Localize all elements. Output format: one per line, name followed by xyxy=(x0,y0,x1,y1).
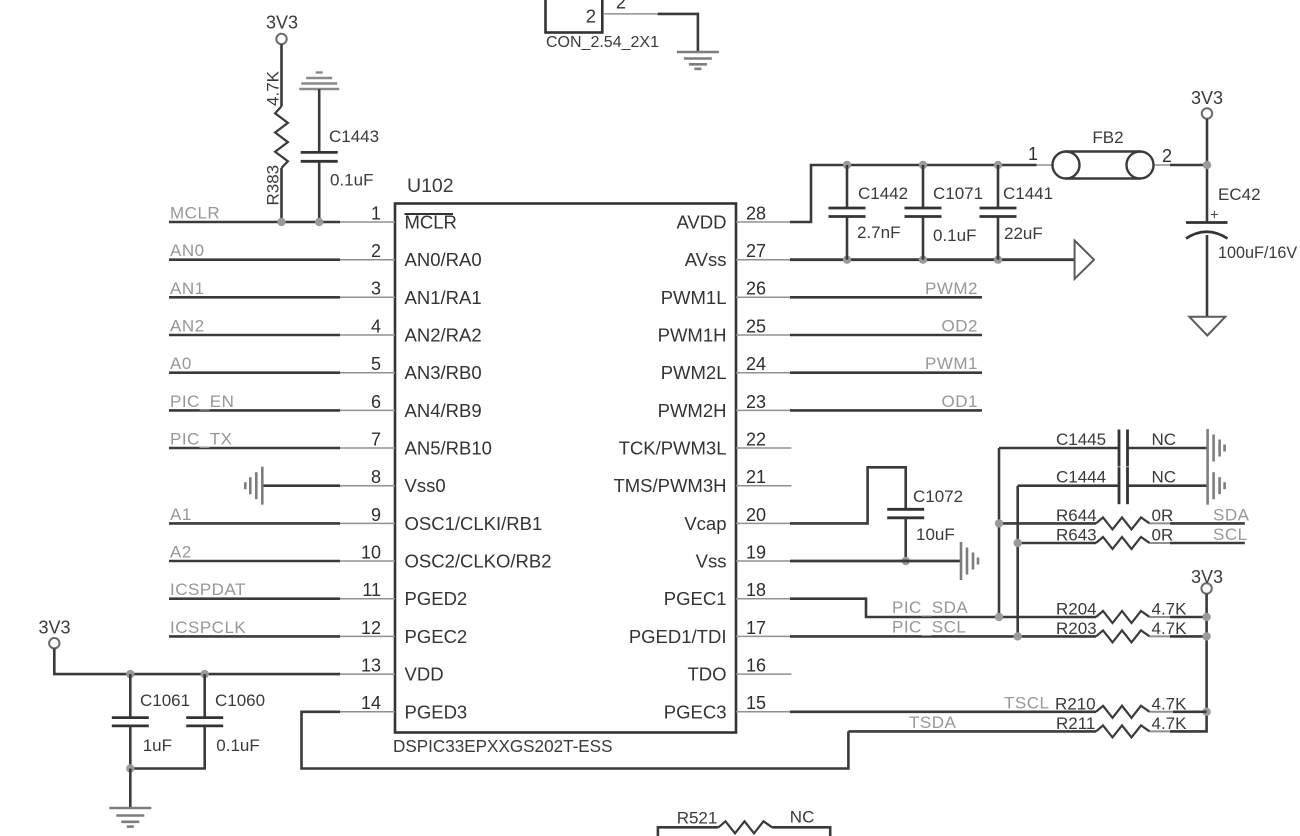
svg-text:C1444: C1444 xyxy=(1056,468,1106,487)
U102 pin stubs right pins 28-15 xyxy=(736,222,791,712)
svg-text:OD2: OD2 xyxy=(942,317,978,336)
wire FB2 pin2 to 3V3 xyxy=(1170,164,1207,167)
wire net TSDA row xyxy=(848,730,1096,733)
wire C1072 to Vss net xyxy=(904,518,907,561)
ground at Vss (rotated right) xyxy=(961,542,978,580)
U102 pin numbers right 28-15 xyxy=(746,203,766,713)
svg-text:PIC_EN: PIC_EN xyxy=(170,392,234,411)
wire connector pin2 to ground xyxy=(658,14,698,52)
wire net A2 pin10 xyxy=(169,560,340,563)
svg-text:PWM2L: PWM2L xyxy=(661,362,727,383)
ground top-middle (earth) xyxy=(677,52,719,69)
svg-text:C1445: C1445 xyxy=(1056,430,1106,449)
svg-text:12: 12 xyxy=(361,618,381,638)
svg-text:R643: R643 xyxy=(1056,526,1097,545)
svg-text:R210: R210 xyxy=(1055,694,1096,713)
wire PGEC3 pin15 net TSCL xyxy=(790,710,1096,713)
junction R643/vertical xyxy=(1014,539,1022,547)
svg-text:21: 21 xyxy=(746,467,766,487)
svg-text:FB2: FB2 xyxy=(1092,128,1123,147)
wire net PWM2 pin26 xyxy=(790,296,982,299)
svg-text:PGEC3: PGEC3 xyxy=(664,701,727,722)
svg-text:18: 18 xyxy=(746,580,766,600)
left net wires pins 1-7, 9-12 xyxy=(169,222,340,636)
svg-text:19: 19 xyxy=(746,542,766,562)
svg-text:TCK/PWM3L: TCK/PWM3L xyxy=(619,438,727,459)
wire net OD2 pin25 xyxy=(790,334,982,337)
junction R383/MCLR xyxy=(277,218,285,226)
svg-text:ICSPCLK: ICSPCLK xyxy=(170,618,246,637)
svg-text:0R: 0R xyxy=(1152,526,1174,545)
svg-text:1: 1 xyxy=(371,203,381,223)
svg-text:1uF: 1uF xyxy=(143,736,172,755)
junction R204/3V3 xyxy=(1202,613,1210,621)
junction C1061/VDD xyxy=(126,670,134,678)
wire net ICSPDAT pin11 xyxy=(169,597,340,600)
junction C1072/Vss xyxy=(902,557,910,565)
svg-text:R521: R521 xyxy=(677,809,718,828)
svg-text:5: 5 xyxy=(371,354,381,374)
svg-text:20: 20 xyxy=(746,505,766,525)
IC U102 DSPIC33EPXXGS202T-ESS xyxy=(395,204,736,733)
wire VDD to C1060 xyxy=(203,674,206,718)
junction C1060/VDD xyxy=(201,670,209,678)
svg-text:PWM1: PWM1 xyxy=(925,354,978,373)
svg-text:EC42: EC42 xyxy=(1218,185,1261,204)
junctions AVss rail xyxy=(843,256,851,264)
svg-text:NC: NC xyxy=(790,808,815,827)
svg-text:PWM2H: PWM2H xyxy=(658,400,727,421)
svg-text:C1060: C1060 xyxy=(215,691,265,710)
wire 3V3 down to EC42 xyxy=(1206,119,1209,222)
svg-text:0.1uF: 0.1uF xyxy=(216,736,259,755)
svg-text:AN0/RA0: AN0/RA0 xyxy=(405,249,482,270)
wire R383 to MCLR net xyxy=(280,168,283,222)
svg-text:NC: NC xyxy=(1152,430,1177,449)
wire net A0 pin5 xyxy=(169,371,340,374)
wire net ICSPCLK pin12 xyxy=(169,635,340,638)
svg-text:PIC_TX: PIC_TX xyxy=(170,430,233,449)
svg-text:24: 24 xyxy=(746,354,766,374)
svg-text:3V3: 3V3 xyxy=(1191,88,1223,108)
svg-text:PWM1L: PWM1L xyxy=(661,287,727,308)
connector pin 2 stub xyxy=(603,13,658,15)
svg-text:A0: A0 xyxy=(170,354,192,373)
FB2 body xyxy=(1053,152,1154,179)
svg-text:22: 22 xyxy=(746,429,766,449)
wire net A1 pin9 xyxy=(169,522,340,525)
svg-text:Vss: Vss xyxy=(696,551,727,572)
junction R210/3V3 xyxy=(1202,708,1210,716)
wire PGED1 pin17 PIC_SCL row xyxy=(790,635,1096,638)
svg-text:4.7K: 4.7K xyxy=(264,70,283,106)
svg-text:2: 2 xyxy=(1162,146,1172,166)
ground triangle below EC42 xyxy=(1189,317,1225,336)
svg-text:2: 2 xyxy=(371,241,381,261)
svg-text:PGEC1: PGEC1 xyxy=(664,588,727,609)
svg-text:PIC_SCL: PIC_SCL xyxy=(892,618,966,637)
svg-text:C1443: C1443 xyxy=(329,127,379,146)
arrow on AVss net xyxy=(1075,241,1094,279)
ground at C1444 (rotated right) xyxy=(1208,467,1225,505)
svg-text:1: 1 xyxy=(1028,144,1038,164)
junction FB2/3V3 xyxy=(1203,161,1211,169)
svg-text:10uF: 10uF xyxy=(916,525,955,544)
svg-text:17: 17 xyxy=(746,618,766,638)
svg-text:15: 15 xyxy=(746,693,766,713)
svg-text:Vcap: Vcap xyxy=(684,513,726,534)
wire net AN0 pin2 xyxy=(169,258,340,261)
capacitor C1061 1uF xyxy=(112,718,149,726)
left net labels xyxy=(170,204,246,637)
svg-text:4: 4 xyxy=(371,316,381,336)
svg-text:9: 9 xyxy=(371,505,381,525)
wire 3V3 to R383 xyxy=(280,44,283,106)
junction PIC_SDA/vertical xyxy=(995,613,1003,621)
svg-text:27: 27 xyxy=(746,241,766,261)
wire Vss pin19 to ground xyxy=(790,560,961,563)
svg-text:AVDD: AVDD xyxy=(676,212,726,233)
svg-text:2.7nF: 2.7nF xyxy=(857,223,900,242)
ground at pin8 Vss0 (rotated left) xyxy=(245,467,262,505)
svg-text:VDD: VDD xyxy=(405,664,444,685)
svg-text:4.7K: 4.7K xyxy=(1152,600,1188,619)
svg-text:U102: U102 xyxy=(407,175,454,197)
svg-text:2: 2 xyxy=(586,6,596,27)
svg-text:26: 26 xyxy=(746,279,766,299)
svg-text:OSC1/CLKI/RB1: OSC1/CLKI/RB1 xyxy=(405,513,543,534)
svg-text:TSCL: TSCL xyxy=(1004,693,1049,712)
wire C1061 to ground xyxy=(129,726,132,769)
svg-text:OD1: OD1 xyxy=(942,392,978,411)
svg-text:OSC2/CLKO/RB2: OSC2/CLKO/RB2 xyxy=(405,551,552,572)
junction caps bottom xyxy=(126,764,134,772)
svg-text:PGED3: PGED3 xyxy=(405,701,468,722)
svg-text:3V3: 3V3 xyxy=(38,618,70,638)
capacitor C1072 10uF xyxy=(887,509,924,518)
svg-text:TDO: TDO xyxy=(687,664,726,685)
U102 pin stubs left pins 1-14 xyxy=(338,222,395,712)
junctions top rail xyxy=(843,161,851,169)
svg-text:PWM2: PWM2 xyxy=(925,279,978,298)
svg-text:+: + xyxy=(1210,207,1219,224)
svg-text:A2: A2 xyxy=(170,543,192,562)
FB2 pin stubs xyxy=(1037,164,1054,166)
svg-text:TMS/PWM3H: TMS/PWM3H xyxy=(613,475,726,496)
svg-text:7: 7 xyxy=(371,429,381,449)
svg-text:R204: R204 xyxy=(1056,600,1097,619)
wire AVss pin27 to arrow xyxy=(790,258,1075,261)
U102 MCLR overline xyxy=(405,213,454,215)
wire pin8 to ground xyxy=(262,484,340,487)
wire 3V3 to VDD pin13 xyxy=(54,648,340,674)
capacitor C1071 0.1uF xyxy=(922,165,925,208)
svg-text:22uF: 22uF xyxy=(1004,224,1043,243)
svg-text:3: 3 xyxy=(371,279,381,299)
svg-text:NC: NC xyxy=(1152,468,1177,487)
svg-text:MCLR: MCLR xyxy=(170,204,220,223)
svg-text:8: 8 xyxy=(371,467,381,487)
svg-text:CON_2.54_2X1: CON_2.54_2X1 xyxy=(546,34,659,51)
wire C1443 to MCLR net xyxy=(318,161,321,222)
svg-text:R203: R203 xyxy=(1056,619,1097,638)
svg-text:AN4/RB9: AN4/RB9 xyxy=(405,400,482,421)
wire VDD to C1061 xyxy=(129,674,132,718)
svg-text:16: 16 xyxy=(746,656,766,676)
svg-text:C1061: C1061 xyxy=(140,691,190,710)
ground bottom-left (earth) xyxy=(109,808,151,827)
svg-text:PWM1H: PWM1H xyxy=(658,325,727,346)
svg-text:AN2/RA2: AN2/RA2 xyxy=(405,325,482,346)
capacitor C1442 2.7nF xyxy=(846,165,849,208)
svg-text:10: 10 xyxy=(361,542,381,562)
svg-text:0.1uF: 0.1uF xyxy=(330,171,373,190)
svg-text:R211: R211 xyxy=(1056,714,1095,733)
svg-text:AN5/RB10: AN5/RB10 xyxy=(405,438,492,459)
svg-text:6: 6 xyxy=(371,392,381,412)
svg-text:Vss0: Vss0 xyxy=(405,475,446,496)
svg-text:13: 13 xyxy=(361,656,381,676)
wire EC42 to ground triangle xyxy=(1206,235,1209,317)
svg-text:14: 14 xyxy=(361,693,381,713)
capacitor C1443 0.1uF xyxy=(301,152,338,161)
capacitor C1441 22uF xyxy=(997,165,1000,208)
junction R644/vertical xyxy=(995,519,1003,527)
svg-text:28: 28 xyxy=(746,203,766,223)
wire PGEC1 pin18 to PIC_SDA row xyxy=(790,599,1096,617)
vertical wire C1445 to PIC_SDA xyxy=(998,448,1001,617)
U102 pin names right xyxy=(613,212,726,723)
svg-text:AVss: AVss xyxy=(685,249,727,270)
svg-text:TSDA: TSDA xyxy=(909,713,957,732)
svg-text:C1442: C1442 xyxy=(858,184,908,203)
svg-text:A1: A1 xyxy=(170,505,192,524)
U102 pin numbers left 1-14 xyxy=(361,203,381,713)
capacitor C1060 0.1uF xyxy=(186,718,223,726)
svg-text:AN3/RB0: AN3/RB0 xyxy=(405,362,482,383)
svg-text:PGED1/TDI: PGED1/TDI xyxy=(629,626,727,647)
svg-text:C1072: C1072 xyxy=(913,487,963,506)
svg-text:AN1/RA1: AN1/RA1 xyxy=(405,287,482,308)
U102 pin names left xyxy=(405,212,552,723)
svg-text:AN2: AN2 xyxy=(170,317,205,336)
resistor R383 4.7K (vertical) xyxy=(275,106,288,168)
svg-text:0.1uF: 0.1uF xyxy=(933,226,976,245)
wire net AN2 pin4 xyxy=(169,334,340,337)
svg-text:PGEC2: PGEC2 xyxy=(405,626,468,647)
svg-text:4.7K: 4.7K xyxy=(1152,714,1188,733)
svg-text:PIC_SDA: PIC_SDA xyxy=(892,598,968,617)
svg-text:2: 2 xyxy=(616,0,626,13)
wire C1060 bottom to C1061 bottom xyxy=(130,726,204,769)
connector CON_2.54_2X1 (top, cut off) xyxy=(546,0,603,33)
wire net PIC_EN pin6 xyxy=(169,409,340,412)
svg-text:PGED2: PGED2 xyxy=(405,588,468,609)
junction C1443/MCLR xyxy=(315,218,323,226)
wire net PWM1 pin24 xyxy=(790,371,982,374)
junction PIC_SCL/vertical xyxy=(1014,632,1022,640)
ground above C1443 (inverted earth) xyxy=(299,73,339,90)
svg-text:R383: R383 xyxy=(264,165,283,206)
wire junction to ground xyxy=(129,769,132,809)
svg-text:SCL: SCL xyxy=(1213,525,1248,544)
wire net PIC_TX pin7 xyxy=(169,447,340,450)
svg-text:23: 23 xyxy=(746,392,766,412)
svg-text:AN0: AN0 xyxy=(170,241,205,260)
wire net OD1 pin23 xyxy=(790,409,982,412)
wire AVDD pin28 to cap rail xyxy=(790,165,1037,222)
svg-text:3V3: 3V3 xyxy=(266,13,298,33)
junction R203/3V3 xyxy=(1202,632,1210,640)
svg-text:25: 25 xyxy=(746,316,766,336)
wire net AN1 pin3 xyxy=(169,296,340,299)
vertical wire C1444 to PIC_SCL xyxy=(1016,486,1019,637)
svg-text:C1071: C1071 xyxy=(933,184,983,203)
svg-text:ICSPDAT: ICSPDAT xyxy=(170,580,246,599)
svg-text:AN1: AN1 xyxy=(170,279,205,298)
svg-text:SDA: SDA xyxy=(1213,506,1250,525)
svg-text:DSPIC33EPXXGS202T-ESS: DSPIC33EPXXGS202T-ESS xyxy=(393,737,612,756)
wire ground to C1443 xyxy=(318,89,321,152)
ground at C1445 (rotated right) xyxy=(1208,429,1225,467)
svg-text:4.7K: 4.7K xyxy=(1152,694,1188,713)
wire Vcap pin20 to C1072 xyxy=(790,467,906,523)
svg-text:11: 11 xyxy=(362,580,381,600)
wire 3V3 vertical down to R211 xyxy=(1170,594,1207,732)
svg-text:100uF/16V: 100uF/16V xyxy=(1218,244,1297,262)
svg-text:C1441: C1441 xyxy=(1003,184,1053,203)
wire net MCLR pin1 xyxy=(169,221,340,224)
svg-text:0R: 0R xyxy=(1152,506,1174,525)
wire net PGED3 pin14 to bottom bus xyxy=(302,712,849,769)
